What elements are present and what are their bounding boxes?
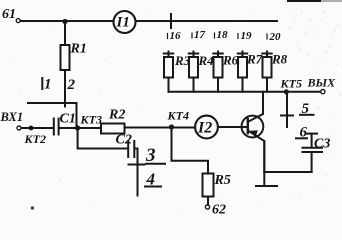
svg-text:1: 1 <box>44 77 52 93</box>
svg-text:R7: R7 <box>246 52 263 67</box>
meter I2 <box>195 116 218 139</box>
contact tick above C3 <box>306 133 317 135</box>
svg-text:I1: I1 <box>116 15 130 31</box>
svg-text:С2: С2 <box>116 133 132 148</box>
svg-text:16: 16 <box>170 30 182 42</box>
scan speck bottom left <box>31 206 34 209</box>
svg-text:19: 19 <box>241 30 253 42</box>
terminal BX1 <box>17 126 21 130</box>
wire switch arm horizontal <box>28 102 77 104</box>
output label BYX <box>307 76 337 90</box>
contact 1 tick <box>42 77 51 93</box>
terminal BYX output <box>321 90 325 94</box>
capacitor C2 <box>116 133 135 158</box>
contact 3 tick <box>129 164 145 166</box>
ground <box>256 141 277 186</box>
wire bottom bus of resistor row to output terminal <box>169 91 321 93</box>
wire C2 to contact 4 <box>135 149 138 196</box>
svg-text:КТ4: КТ4 <box>167 109 189 123</box>
resistor R7 <box>238 52 263 92</box>
contact 2 label <box>67 77 76 93</box>
wire down to node KT3 <box>76 103 78 128</box>
meter I1 <box>114 11 136 33</box>
svg-text:18: 18 <box>217 29 229 41</box>
svg-text:17: 17 <box>194 29 206 41</box>
capacitor C3 <box>303 134 331 172</box>
contact 16 tick on top wire <box>170 14 172 28</box>
wire R2 to I2 <box>125 127 196 129</box>
node KT5 <box>280 77 302 95</box>
contact 5 tick <box>281 115 293 117</box>
svg-text:ВЫХ: ВЫХ <box>307 76 337 90</box>
resistor R4 <box>189 52 214 92</box>
svg-text:I2: I2 <box>197 120 212 137</box>
svg-text:R6: R6 <box>222 53 239 68</box>
svg-text:R1: R1 <box>70 42 87 57</box>
resistor R6 <box>213 52 238 92</box>
svg-text:20: 20 <box>269 31 282 43</box>
resistor R5 <box>203 173 231 205</box>
wire KT5 down to contact 6 <box>286 92 288 127</box>
paper noise speckle <box>19 7 335 200</box>
svg-text:КТ2: КТ2 <box>24 132 46 146</box>
scan artifact line top right <box>288 0 342 2</box>
terminal G2 <box>205 205 209 209</box>
wire top bus from G1 to I1 <box>21 20 114 22</box>
wire C3 bottom to emitter <box>264 171 311 173</box>
resistor R3 <box>164 52 191 92</box>
wire I2 to transistor base <box>218 126 247 128</box>
svg-text:R5: R5 <box>214 173 231 188</box>
pin label 18 <box>215 29 229 41</box>
wire C1 to R2 <box>59 127 101 129</box>
pin label 20 <box>267 31 281 43</box>
svg-text:2: 2 <box>67 77 76 93</box>
node KT3 <box>75 113 102 131</box>
svg-text:R4: R4 <box>198 53 215 68</box>
pin label 6 <box>296 125 308 141</box>
svg-text:R2: R2 <box>108 108 125 123</box>
node KT4 <box>167 109 189 130</box>
resistor R1 <box>61 22 87 107</box>
svg-text:КТ3: КТ3 <box>80 113 102 127</box>
resistor R8 <box>262 52 287 92</box>
svg-text:61: 61 <box>2 7 16 22</box>
wire KT4 down to R5 <box>172 127 209 174</box>
pin label 19 <box>238 30 252 42</box>
resistor R2 <box>101 108 125 134</box>
pin label 3 <box>145 145 165 166</box>
svg-text:R8: R8 <box>271 52 288 67</box>
pin label 17 <box>192 29 206 41</box>
battery G2 label <box>212 203 226 218</box>
wire top from I1 to right end <box>136 20 278 22</box>
pin label 5 <box>300 101 314 117</box>
wire BX1 to C1 <box>22 127 54 129</box>
svg-text:С1: С1 <box>60 112 76 127</box>
pin label 16 <box>168 30 182 42</box>
svg-text:С3: С3 <box>314 137 330 152</box>
svg-text:КТ5: КТ5 <box>280 77 302 91</box>
terminal G1 <box>16 19 20 23</box>
wire KT3 down and right to C2 <box>78 128 128 149</box>
node KT2 <box>24 126 46 146</box>
svg-text:62: 62 <box>212 203 226 217</box>
transistor Q1 <box>242 92 265 172</box>
battery G1 label <box>2 7 16 22</box>
pin label 4 <box>145 170 161 189</box>
junction node at R1 top <box>62 19 67 24</box>
input BX1 label <box>0 110 23 124</box>
capacitor C1 <box>54 112 76 135</box>
svg-text:ВХ1: ВХ1 <box>0 110 23 124</box>
